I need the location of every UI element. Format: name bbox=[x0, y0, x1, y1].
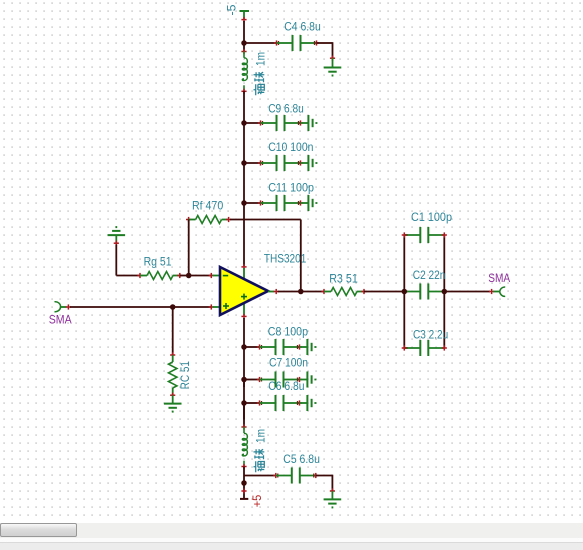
svg-text:Rf 470: Rf 470 bbox=[192, 198, 224, 212]
svg-text:C5 6.8u: C5 6.8u bbox=[283, 452, 320, 466]
svg-text:C2 22n: C2 22n bbox=[413, 268, 446, 282]
svg-text:C4 6.8u: C4 6.8u bbox=[284, 20, 321, 34]
svg-text:1m: 1m bbox=[253, 52, 267, 66]
svg-text:R3 51: R3 51 bbox=[329, 272, 358, 286]
svg-text:+5: +5 bbox=[250, 494, 264, 507]
svg-text:C9 6.8u: C9 6.8u bbox=[268, 102, 304, 116]
svg-text:RC 51: RC 51 bbox=[178, 361, 192, 390]
svg-text:C8 100p: C8 100p bbox=[268, 325, 308, 339]
svg-text:1m: 1m bbox=[253, 429, 267, 443]
svg-text:THS3201: THS3201 bbox=[264, 251, 307, 265]
svg-text:C11 100p: C11 100p bbox=[268, 180, 314, 194]
svg-text:SMA: SMA bbox=[488, 271, 510, 285]
svg-text:C10 100n: C10 100n bbox=[268, 140, 313, 154]
svg-text:Rg 51: Rg 51 bbox=[144, 255, 172, 269]
svg-text:C6 6.8u: C6 6.8u bbox=[268, 379, 304, 393]
svg-text:SMA: SMA bbox=[49, 313, 72, 327]
svg-text:C3 2.2u: C3 2.2u bbox=[413, 327, 448, 341]
svg-text:-5: -5 bbox=[225, 4, 239, 15]
svg-text:C1 100p: C1 100p bbox=[411, 210, 452, 224]
svg-text:C7 100n: C7 100n bbox=[269, 355, 308, 369]
